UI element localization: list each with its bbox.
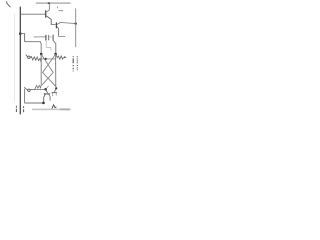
Q4 right leg: [55, 93, 57, 96]
right rail: [75, 8, 77, 47]
bottom rail: [25, 102, 44, 104]
wire vertical T2 branch: [24, 89, 26, 103]
node dot left rail: [19, 32, 22, 35]
arrowhead output: [64, 56, 66, 58]
resistor R2 zigzag: [56, 55, 64, 60]
terminal T1 lead: [26, 55, 28, 57]
terminal T2 wire: [30, 89, 33, 91]
label left bottom col1: [15, 106, 17, 112]
node dot on wire: [45, 58, 47, 60]
whisker node C: [46, 86, 49, 89]
top rail: [36, 2, 71, 4]
left rail: [19, 7, 21, 115]
node D: [55, 87, 57, 89]
node dot top rail: [48, 2, 51, 4]
node C: [44, 88, 47, 91]
wire lower mid: [25, 42, 42, 54]
terminal T2 lead: [24, 87, 27, 90]
lattice left vertical: [40, 54, 42, 84]
node dot bottom rail: [42, 102, 45, 105]
Q2 collector: [57, 23, 76, 25]
transistor Q4 bar: [52, 92, 57, 94]
wire from rail node: [20, 32, 24, 34]
cursor arrow: [7, 2, 11, 7]
node B: [54, 53, 57, 56]
transistor Q2: [55, 22, 57, 28]
resistor R3 zigzag: [35, 84, 42, 89]
transistor Q1: [45, 10, 47, 17]
caption smear: [32, 109, 60, 111]
Q2 emitter: [57, 27, 59, 37]
transistor Q3 base feed: [46, 89, 48, 93]
capacitor C1 plate: [45, 35, 47, 41]
capacitor C2 plate: [52, 35, 54, 41]
wire upper mid: [34, 36, 46, 38]
wire Q1 emitter to Q2 base: [51, 24, 56, 26]
vertical stub: [24, 33, 26, 41]
terminal T2 circle: [28, 89, 30, 91]
transistor Q3 bar: [44, 93, 50, 95]
faint link cap down: [46, 41, 51, 51]
wire node A to B: [41, 58, 55, 60]
wire C2 to right vertex feed: [53, 41, 56, 54]
lattice right vertical: [54, 54, 56, 92]
faint fold line: [14, 14, 16, 102]
wire between caps: [49, 36, 53, 38]
Q1 collector: [46, 3, 49, 12]
terminal T1 wire: [30, 56, 32, 58]
terminal T1 circle: [28, 56, 30, 58]
wire right of emitter: [59, 35, 66, 37]
Q4 left leg: [52, 93, 54, 96]
lattice diagonal W2: [43, 54, 56, 86]
node A: [40, 53, 43, 56]
label right col1: [72, 56, 74, 71]
capacitor C1 plate2: [48, 35, 50, 40]
Q1 emitter: [46, 16, 51, 25]
ground glyph: [52, 105, 57, 109]
label under top rail: [57, 6, 63, 10]
node dot right rail: [75, 22, 77, 24]
label left bottom col2: [23, 106, 25, 112]
lattice diagonal W1: [41, 54, 53, 85]
wire base bottom: [30, 89, 45, 91]
resistor R1 zigzag: [30, 57, 41, 62]
wire base Q1: [21, 13, 46, 15]
label right col2: [76, 56, 78, 70]
Q3 left leg: [44, 94, 46, 102]
Q3 right leg: [49, 94, 50, 100]
